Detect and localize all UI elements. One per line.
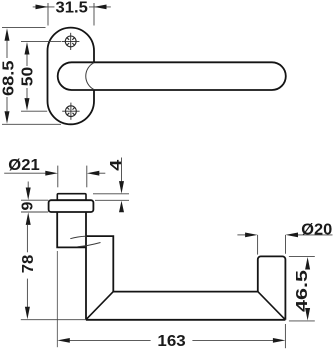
neck bend tangent curve upper	[70, 236, 86, 239]
mitre line right bend	[258, 292, 286, 320]
dimension 163 (overall length)	[57, 251, 285, 348]
dimension 31.5 (rosette width)	[33, 3, 111, 26]
dimension 9 (rose height)	[21, 182, 48, 213]
svg-text:Ø20: Ø20	[301, 221, 332, 238]
svg-text:31.5: 31.5	[56, 0, 88, 17]
svg-text:9: 9	[20, 202, 37, 211]
dimension 46.5 (grip return)	[289, 257, 315, 321]
lever handle bar	[58, 62, 286, 90]
handle outline (plan)	[57, 212, 285, 320]
svg-text:68.5: 68.5	[1, 60, 18, 96]
svg-text:50: 50	[20, 67, 37, 87]
rose disc (side view)	[49, 200, 94, 212]
dimension 50 (screw distance)	[21, 41, 62, 111]
rose collar cap (Ø21)	[57, 194, 86, 201]
dimension Ø21 (collar diameter)	[4, 166, 105, 188]
dimension 4 (collar protrusion)	[93, 158, 129, 201]
svg-text:163: 163	[157, 333, 185, 350]
dimension 68.5 (rosette height)	[2, 28, 61, 125]
neck bend tangent curve lower	[78, 243, 101, 247]
screw top	[62, 33, 79, 50]
dimension Ø20 (grip diameter)	[237, 235, 332, 255]
dimension 78 (projection)	[21, 225, 85, 320]
svg-text:4: 4	[108, 160, 125, 171]
mitre line left bend	[86, 292, 114, 320]
rosette oval backplate	[48, 28, 95, 125]
svg-text:78: 78	[20, 255, 37, 274]
screw bottom	[62, 103, 79, 120]
svg-text:46.5: 46.5	[294, 270, 311, 312]
svg-text:Ø21: Ø21	[8, 157, 39, 174]
neck-to-grip transition arc	[86, 63, 94, 90]
